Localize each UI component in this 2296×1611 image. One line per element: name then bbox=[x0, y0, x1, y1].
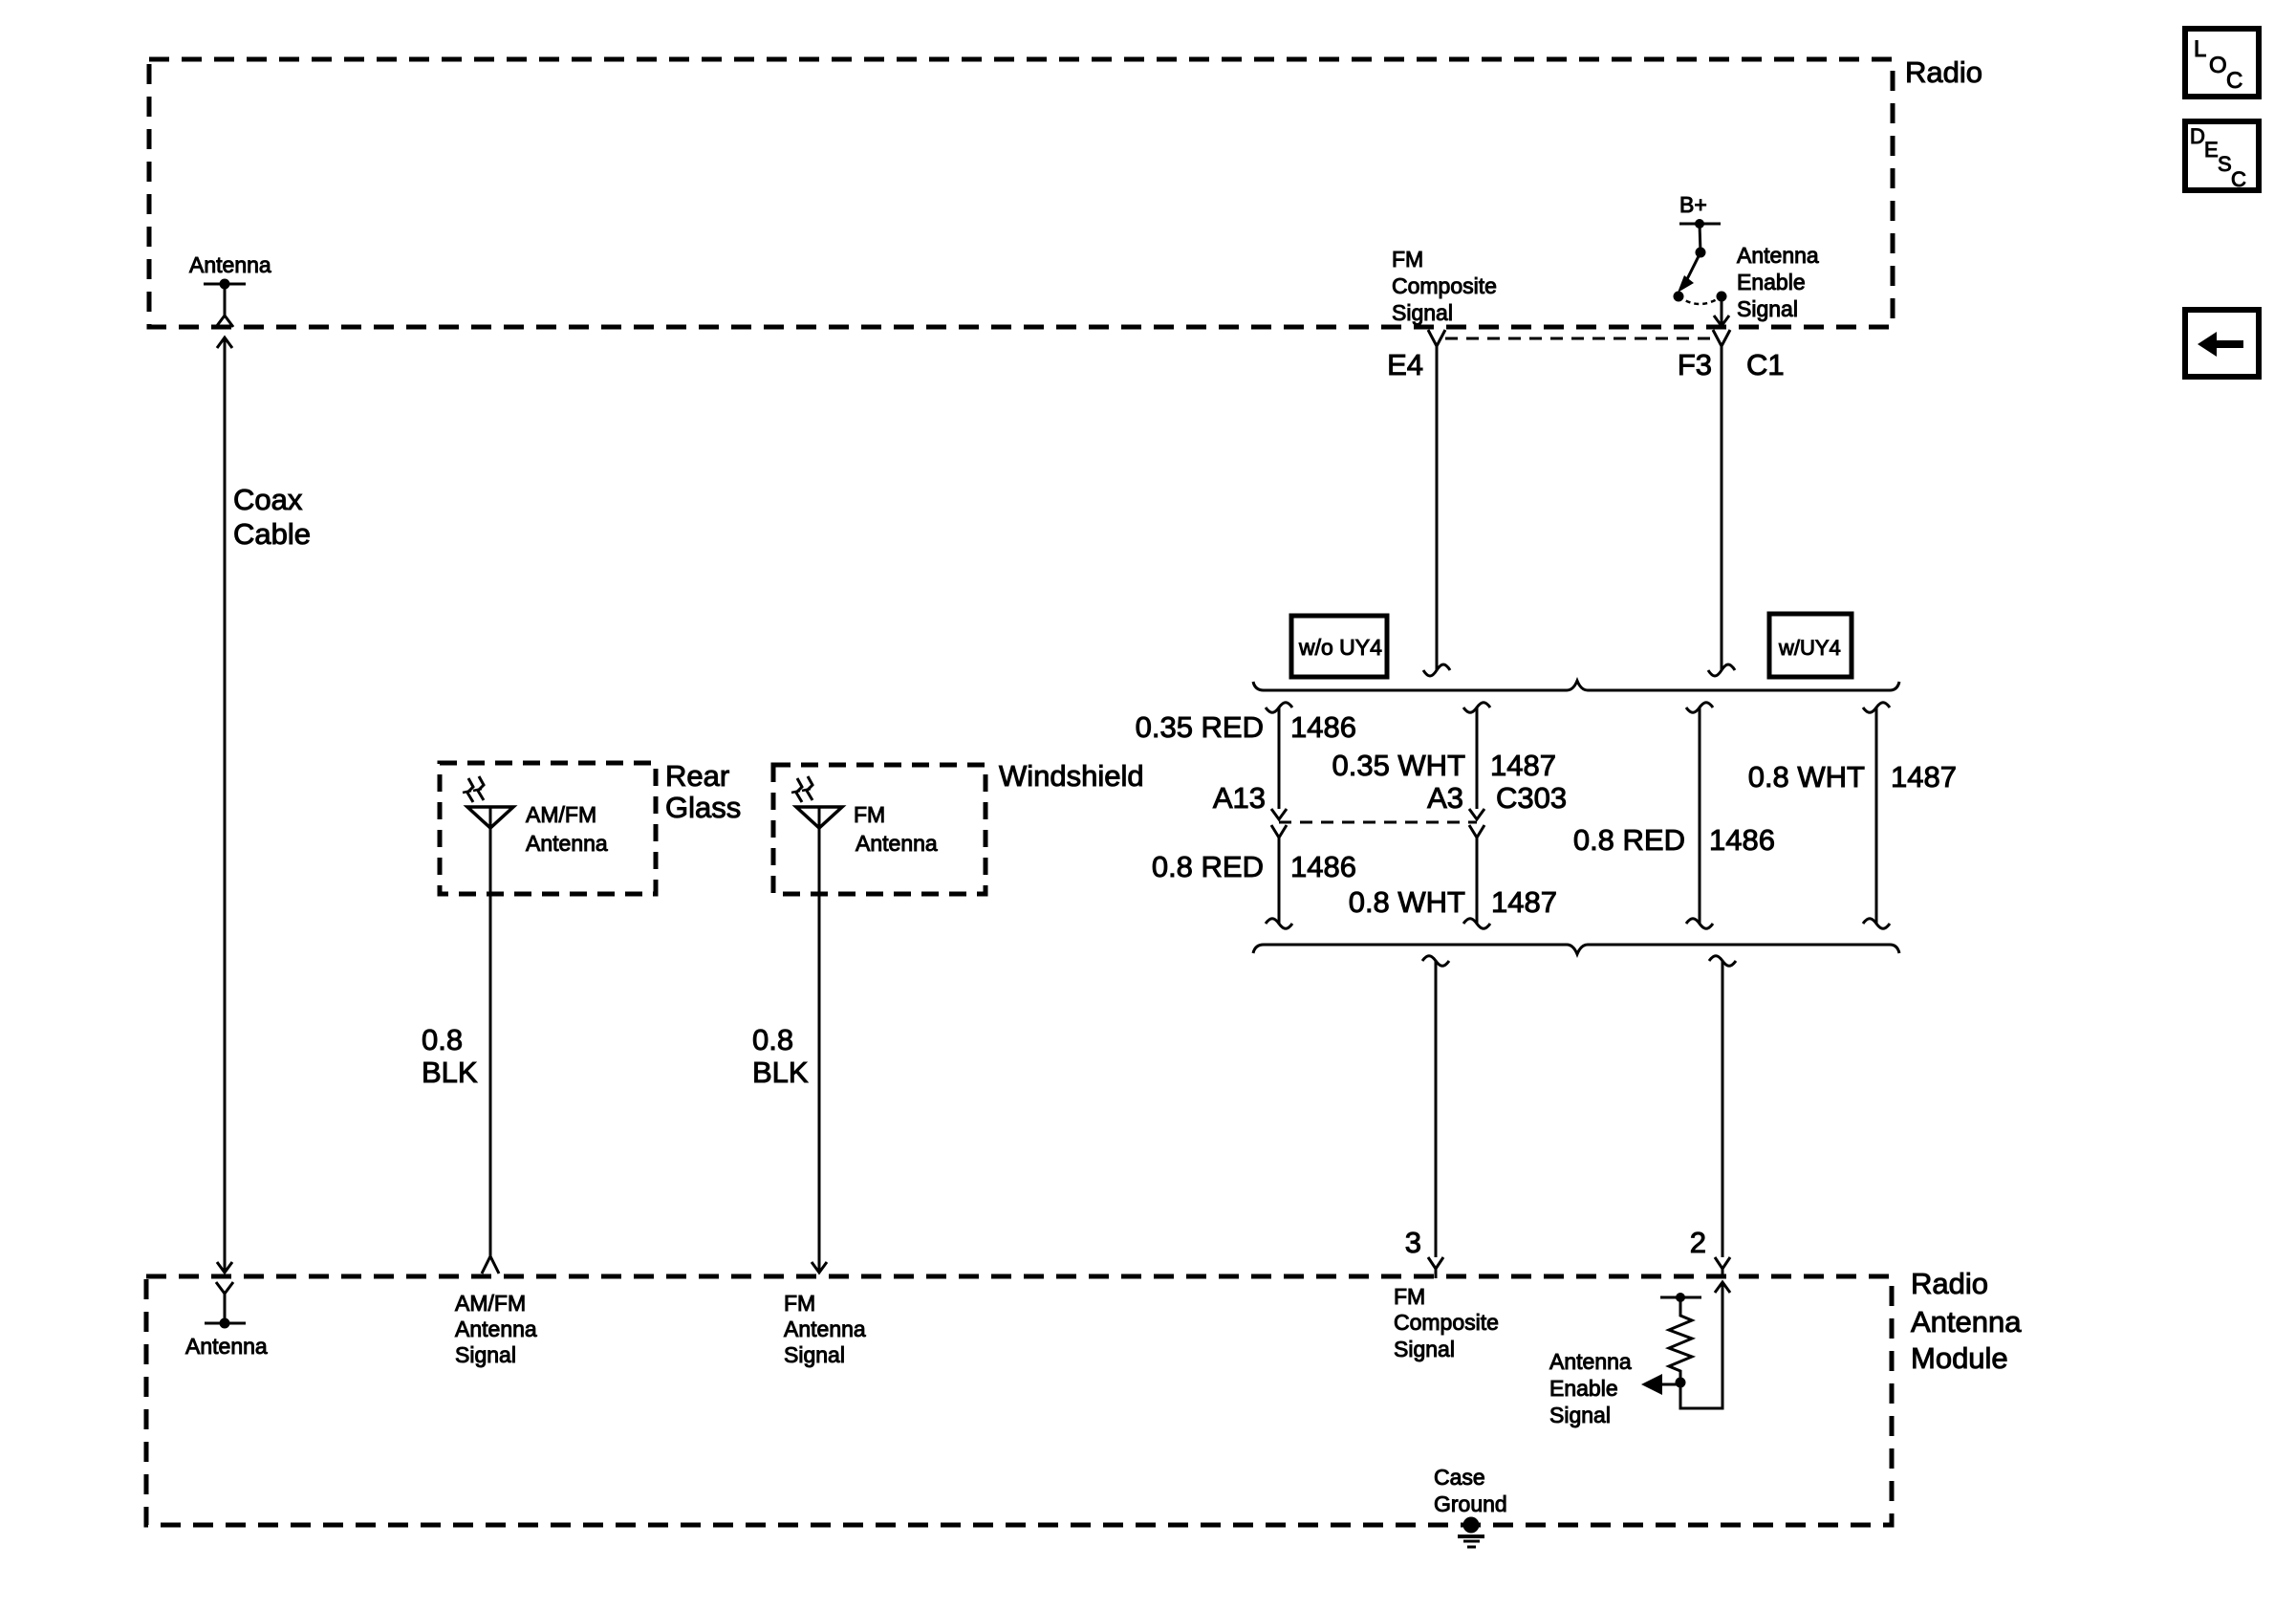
svg-text:1487: 1487 bbox=[1490, 749, 1556, 782]
wire antenna enable output with arrow bbox=[1641, 1374, 1680, 1395]
svg-text:Composite: Composite bbox=[1394, 1310, 1499, 1335]
label Antenna Enable Signal (module) bbox=[1549, 1349, 1632, 1427]
svg-text:FM: FM bbox=[1394, 1284, 1425, 1309]
svg-text:Antenna: Antenna bbox=[526, 831, 608, 856]
svg-text:C303: C303 bbox=[1496, 781, 1567, 815]
button box LOC bbox=[2185, 29, 2259, 97]
svg-text:1486: 1486 bbox=[1290, 850, 1356, 883]
component box Windshield (dashed) bbox=[773, 765, 986, 894]
wire 2 WHT 1487 (w/o UY4) bbox=[1463, 703, 1490, 929]
svg-text:Antenna: Antenna bbox=[1911, 1305, 2022, 1339]
wire 1 RED 1486 (w/o UY4) bbox=[1266, 703, 1292, 929]
label AM/FM Antenna bbox=[526, 802, 608, 856]
connector pin F3 bbox=[1708, 330, 1735, 676]
switch S1 (antenna enable, inside Radio) bbox=[1674, 219, 1727, 304]
svg-text:0.8: 0.8 bbox=[422, 1023, 463, 1056]
svg-text:Signal: Signal bbox=[1394, 1337, 1455, 1361]
component box Radio Antenna Module (dashed outline) bbox=[146, 1276, 1892, 1525]
svg-text:1487: 1487 bbox=[1491, 885, 1557, 919]
component box Rear Glass (dashed) bbox=[440, 763, 656, 894]
label FM Antenna Signal bbox=[784, 1291, 866, 1367]
svg-text:AM/FM: AM/FM bbox=[455, 1291, 526, 1316]
wire coax cable (antenna to module) bbox=[217, 337, 232, 1273]
svg-text:BLK: BLK bbox=[752, 1056, 809, 1089]
antenna terminal (Radio) bbox=[204, 279, 246, 328]
brace top bbox=[1253, 681, 1899, 690]
svg-text:Signal: Signal bbox=[1549, 1403, 1611, 1427]
svg-text:C1: C1 bbox=[1746, 348, 1785, 381]
svg-text:w/o UY4: w/o UY4 bbox=[1298, 635, 1382, 660]
svg-text:Antenna: Antenna bbox=[856, 831, 938, 856]
svg-text:D: D bbox=[2190, 124, 2205, 148]
svg-text:F3: F3 bbox=[1678, 348, 1712, 381]
svg-text:L: L bbox=[2194, 36, 2206, 62]
svg-text:0.8 RED: 0.8 RED bbox=[1152, 850, 1264, 883]
svg-text:Rear: Rear bbox=[665, 759, 729, 793]
svg-text:3: 3 bbox=[1405, 1226, 1421, 1259]
svg-text:1486: 1486 bbox=[1290, 710, 1356, 744]
wire resistor to pin 2 bbox=[1680, 1282, 1730, 1408]
label FM Antenna bbox=[854, 802, 938, 856]
svg-text:BLK: BLK bbox=[422, 1056, 478, 1089]
label 0.8 BLK (left) bbox=[422, 1023, 478, 1089]
svg-text:Case: Case bbox=[1434, 1465, 1485, 1490]
button box DESC bbox=[2185, 121, 2259, 191]
wire AM/FM antenna signal bbox=[482, 807, 499, 1274]
connector pin E4 bbox=[1423, 330, 1450, 676]
svg-text:C: C bbox=[2231, 167, 2246, 191]
svg-text:w/UY4: w/UY4 bbox=[1778, 636, 1841, 660]
svg-text:Enable: Enable bbox=[1549, 1376, 1618, 1401]
svg-text:Coax: Coax bbox=[233, 483, 303, 516]
svg-text:Windshield: Windshield bbox=[999, 759, 1144, 793]
svg-text:2: 2 bbox=[1690, 1226, 1706, 1259]
svg-text:A13: A13 bbox=[1213, 781, 1266, 815]
option box w/UY4 bbox=[1769, 614, 1852, 677]
label Case Ground bbox=[1434, 1465, 1507, 1516]
svg-text:0.35 RED: 0.35 RED bbox=[1136, 710, 1264, 744]
svg-text:0.8: 0.8 bbox=[752, 1023, 793, 1056]
svg-text:Composite: Composite bbox=[1392, 273, 1497, 298]
svg-text:FM: FM bbox=[1392, 247, 1423, 272]
svg-text:Antenna: Antenna bbox=[1549, 1349, 1632, 1374]
svg-text:S: S bbox=[2218, 152, 2232, 176]
svg-text:Radio: Radio bbox=[1911, 1267, 1988, 1300]
svg-text:Enable: Enable bbox=[1737, 270, 1806, 294]
svg-text:0.8 RED: 0.8 RED bbox=[1573, 823, 1685, 857]
option box w/o UY4 bbox=[1291, 616, 1387, 677]
svg-text:0.8 WHT: 0.8 WHT bbox=[1748, 760, 1865, 794]
svg-text:B+: B+ bbox=[1679, 192, 1707, 217]
svg-text:E4: E4 bbox=[1387, 348, 1423, 381]
label Coax Cable bbox=[233, 483, 311, 551]
svg-text:C: C bbox=[2226, 68, 2242, 94]
label AM/FM Antenna Signal bbox=[455, 1291, 537, 1367]
svg-text:1486: 1486 bbox=[1709, 823, 1775, 857]
label Antenna Enable Signal (Radio) bbox=[1737, 243, 1819, 321]
svg-text:O: O bbox=[2209, 53, 2227, 78]
svg-text:1487: 1487 bbox=[1891, 760, 1957, 794]
component box Radio (dashed outline) bbox=[149, 59, 1893, 327]
antenna AM/FM (rear glass) bbox=[463, 776, 513, 828]
wire FM antenna signal bbox=[812, 807, 827, 1273]
wire switch to pin C1 F3 with down arrow bbox=[1714, 296, 1729, 326]
button box back-arrow bbox=[2185, 310, 2259, 377]
svg-text:E: E bbox=[2204, 138, 2219, 162]
connector line C1 (thin dashed) bbox=[1445, 337, 1713, 340]
svg-text:Module: Module bbox=[1911, 1341, 2008, 1375]
label Radio Antenna Module bbox=[1911, 1267, 2022, 1375]
wire to module pin 2 bbox=[1709, 956, 1736, 1278]
wire to module pin 3 bbox=[1422, 956, 1449, 1278]
svg-text:Cable: Cable bbox=[233, 517, 311, 551]
svg-text:Antenna: Antenna bbox=[1737, 243, 1819, 268]
svg-text:Ground: Ground bbox=[1434, 1491, 1507, 1516]
label Rear Glass bbox=[665, 759, 741, 824]
svg-text:0.35 WHT: 0.35 WHT bbox=[1332, 749, 1465, 782]
svg-text:Antenna: Antenna bbox=[189, 252, 271, 277]
svg-text:0.8 WHT: 0.8 WHT bbox=[1349, 885, 1465, 919]
svg-text:Signal: Signal bbox=[455, 1342, 516, 1367]
svg-text:Signal: Signal bbox=[1737, 296, 1798, 321]
svg-text:AM/FM: AM/FM bbox=[526, 802, 596, 827]
ground (case ground) bbox=[1458, 1517, 1484, 1548]
svg-text:Signal: Signal bbox=[784, 1342, 845, 1367]
wire 3 RED 1486 (w/UY4) bbox=[1686, 703, 1713, 929]
brace bottom bbox=[1253, 945, 1899, 954]
antenna terminal (module) bbox=[205, 1282, 246, 1329]
svg-text:Antenna: Antenna bbox=[784, 1317, 866, 1341]
label FM Composite Signal (Radio pin E4) bbox=[1392, 247, 1497, 325]
svg-text:Glass: Glass bbox=[665, 791, 741, 824]
resistor R1 (antenna enable, module) bbox=[1660, 1293, 1701, 1388]
svg-text:FM: FM bbox=[854, 802, 885, 827]
wire 4 WHT 1487 (w/UY4) bbox=[1863, 703, 1890, 929]
svg-text:A3: A3 bbox=[1427, 781, 1463, 815]
label FM Composite Signal (module pin 3) bbox=[1394, 1284, 1499, 1361]
antenna FM (windshield) bbox=[791, 776, 842, 828]
svg-text:Radio: Radio bbox=[1905, 55, 1982, 89]
label 0.8 BLK (right) bbox=[752, 1023, 809, 1089]
svg-text:Antenna: Antenna bbox=[185, 1334, 268, 1359]
svg-text:Signal: Signal bbox=[1392, 300, 1453, 325]
svg-text:FM: FM bbox=[784, 1291, 815, 1316]
svg-text:Antenna: Antenna bbox=[455, 1317, 537, 1341]
connector line C303 (thin dashed) bbox=[1279, 821, 1477, 824]
